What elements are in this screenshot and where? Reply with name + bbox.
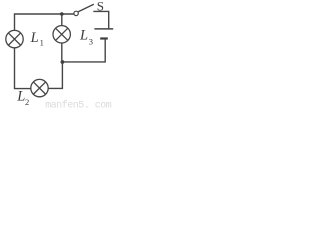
wire battery negative down and left along bottom rail <box>63 39 106 62</box>
wire L3 top branch <box>61 14 63 26</box>
node junction dot bottom (L2/L3 tap) <box>61 60 65 64</box>
svg-text:L: L <box>30 30 39 46</box>
wire junction down and left to L2 right terminal <box>48 62 62 88</box>
battery positive plate (long) <box>94 28 113 30</box>
svg-text:2: 2 <box>25 97 29 107</box>
svg-text:L: L <box>16 89 25 105</box>
battery negative plate (short) <box>100 37 108 39</box>
svg-text:3: 3 <box>89 37 93 47</box>
wire L3 bottom branch down to junction <box>61 43 63 62</box>
lamp L3 (circle with X) <box>53 26 70 43</box>
wire L2 left terminal left and up to L1 bottom <box>15 48 31 89</box>
svg-text:manfen5. com: manfen5. com <box>45 99 112 109</box>
lamp L1 (circle with X) <box>6 30 23 47</box>
switch S pivot circle <box>74 11 78 15</box>
lamp L2 (circle with X) <box>31 79 48 96</box>
node junction dot top (L3 branch tap) <box>60 12 64 16</box>
svg-text:L: L <box>79 28 88 44</box>
wire switch right terminal to battery positive <box>93 11 108 28</box>
svg-text:1: 1 <box>40 38 44 48</box>
switch S lever arm <box>78 4 94 12</box>
wire top-left from L1 top up and right along top rail to switch <box>15 14 74 30</box>
